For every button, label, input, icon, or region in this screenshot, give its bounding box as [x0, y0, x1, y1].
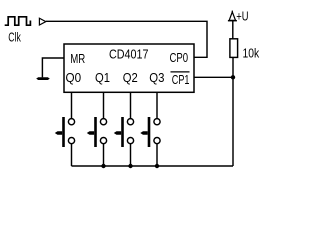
svg-text:Q0: Q0 — [66, 71, 82, 85]
svg-text:10k: 10k — [243, 47, 260, 61]
svg-text:CP1: CP1 — [172, 73, 190, 87]
svg-text:Q3: Q3 — [149, 71, 164, 85]
svg-text:CP0: CP0 — [170, 51, 189, 65]
svg-text:+U: +U — [236, 10, 248, 24]
svg-text:CD4017: CD4017 — [109, 48, 149, 62]
svg-text:MR: MR — [70, 52, 85, 66]
svg-text:Q2: Q2 — [123, 71, 138, 85]
svg-text:Q1: Q1 — [95, 71, 110, 85]
svg-text:Clk: Clk — [8, 31, 21, 45]
